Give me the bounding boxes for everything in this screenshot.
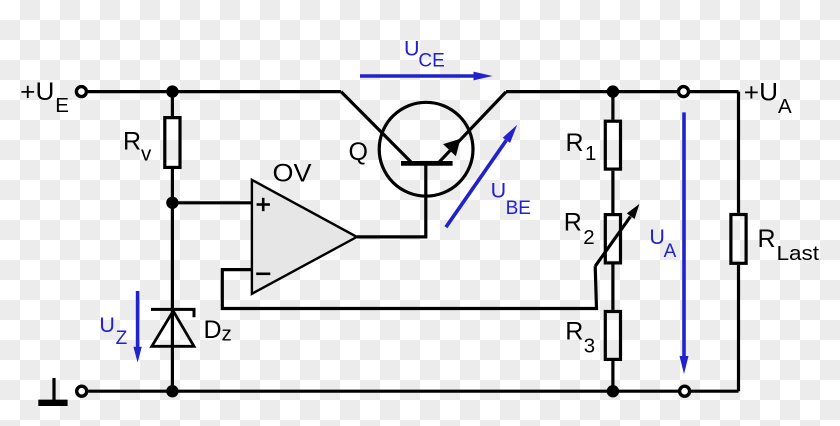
wire RLast bottom lead: [737, 265, 740, 391]
resistor R3: [605, 312, 620, 360]
svg-text:D: D: [204, 316, 222, 344]
potentiometer wiper arrow R2: [595, 204, 639, 266]
op-amp OV triangle: [252, 180, 357, 294]
wire bottom rail: [88, 390, 738, 393]
svg-text:A: A: [664, 241, 677, 262]
wire Rv top lead: [171, 92, 174, 116]
transistor Q emitter arrowhead: [443, 139, 460, 157]
svg-text:+U: +U: [20, 78, 54, 106]
label +UE: [20, 78, 69, 117]
transistor Q base bar: [401, 161, 453, 166]
node junction Dz bottom: [166, 385, 178, 397]
op-amp + input symbol: [257, 198, 270, 211]
resistor R2: [605, 215, 620, 263]
wire feedback from - input to R2 wiper: [222, 266, 596, 308]
label Dz: [204, 316, 232, 346]
svg-text:U: U: [99, 313, 115, 337]
svg-text:U: U: [404, 37, 420, 61]
output terminal circle +UA: [679, 87, 689, 97]
svg-text:CE: CE: [418, 50, 444, 71]
svg-text:v: v: [141, 142, 152, 165]
svg-text:E: E: [55, 94, 69, 117]
svg-text:R: R: [566, 129, 584, 157]
label +UA: [744, 78, 792, 118]
label UBE: [491, 179, 531, 219]
svg-text:3: 3: [584, 335, 595, 358]
wire Dz branch vertical: [171, 203, 174, 391]
label UZ: [99, 313, 127, 349]
svg-text:R: R: [565, 318, 583, 346]
output terminal circle bottom: [680, 386, 690, 396]
transistor Q circle: [379, 102, 473, 196]
resistor R1: [605, 121, 620, 169]
label UCE: [404, 37, 445, 72]
op-amp - input symbol: [256, 272, 270, 275]
label R2: [564, 209, 595, 249]
svg-text:R: R: [564, 209, 582, 237]
wire R1 top lead: [611, 92, 614, 120]
voltage arrow UZ: [133, 291, 141, 363]
resistor Rv: [165, 118, 180, 168]
svg-text:BE: BE: [506, 198, 531, 219]
node junction Rv top: [166, 85, 178, 97]
ground terminal circle: [77, 386, 87, 396]
svg-text:Z: Z: [116, 328, 128, 349]
wire top rail left: [88, 90, 341, 93]
wire R2 to R3: [611, 264, 614, 310]
wire op-amp output to transistor base: [357, 164, 426, 237]
wire R3 bottom lead: [611, 361, 614, 391]
zener diode Dz anode triangle: [152, 311, 194, 346]
svg-text:U: U: [649, 225, 665, 249]
resistor RLast: [731, 215, 746, 264]
transistor Q emitter wire: [437, 92, 506, 164]
svg-text:Last: Last: [777, 242, 820, 265]
voltage arrow UBE: [446, 125, 517, 228]
svg-text:A: A: [778, 95, 792, 118]
voltage arrow UCE: [360, 72, 493, 81]
wire R1 to R2: [611, 171, 614, 214]
wire Rv bottom lead: [171, 169, 174, 203]
label RLast: [758, 225, 820, 265]
wire op-amp + input: [172, 201, 252, 204]
node junction R1 top: [607, 85, 619, 97]
node junction Rv / op-amp + input: [166, 197, 178, 209]
voltage arrow UA: [680, 112, 689, 374]
label R3: [565, 318, 595, 358]
svg-text:2: 2: [583, 226, 594, 249]
svg-text:1: 1: [585, 142, 596, 165]
ground symbol: [38, 378, 67, 403]
transistor Q collector wire: [341, 92, 411, 162]
svg-text:+U: +U: [744, 78, 778, 106]
label UA: [649, 225, 676, 262]
label R1: [566, 129, 597, 165]
svg-text:Q: Q: [349, 138, 368, 166]
wire top rail right: [506, 90, 739, 93]
node junction R3 bottom: [607, 385, 619, 397]
label Rv: [123, 127, 152, 165]
svg-text:R: R: [758, 225, 776, 253]
svg-text:R: R: [123, 127, 141, 155]
zener diode Dz cathode bar: [151, 309, 194, 317]
svg-text:z: z: [222, 323, 232, 346]
svg-text:OV: OV: [273, 160, 312, 188]
input terminal circle +UE: [76, 87, 86, 97]
wire RLast top lead: [737, 92, 740, 213]
svg-text:U: U: [491, 179, 507, 203]
